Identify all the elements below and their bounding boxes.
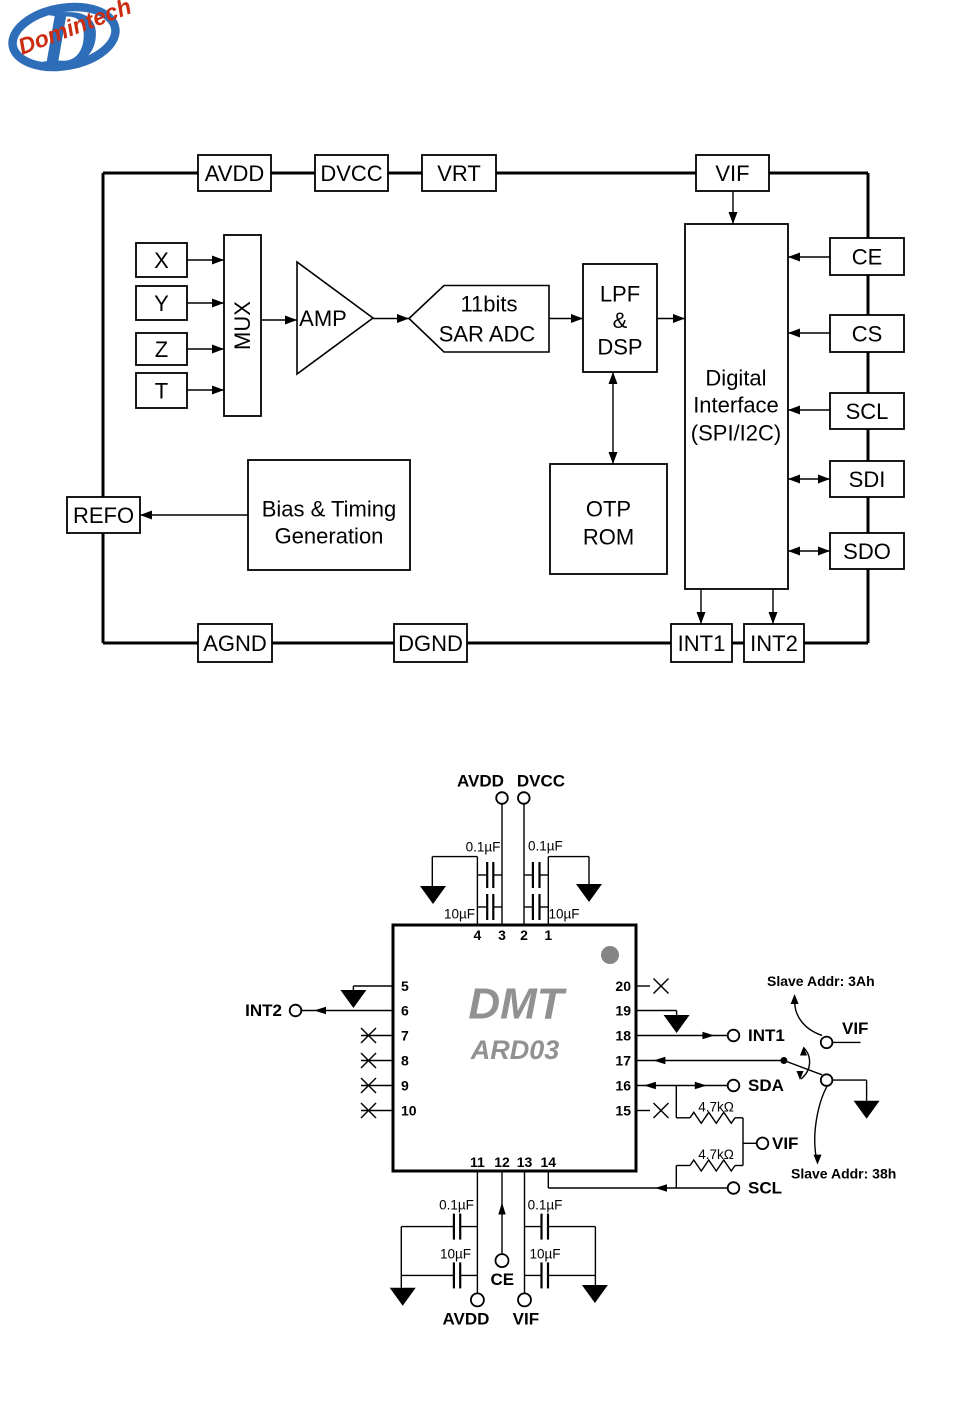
- terminal AVDD (bottom): [471, 1293, 484, 1306]
- svg-text:VIF: VIF: [513, 1310, 539, 1329]
- wire pin 11 to AVDD terminal: [476, 1171, 478, 1293]
- svg-text:8: 8: [401, 1053, 409, 1069]
- svg-text:SDA: SDA: [748, 1076, 784, 1095]
- wire Digital Interface to INT2: [769, 589, 778, 624]
- wire right rail to ground (bottom): [594, 1227, 596, 1285]
- svg-text:3: 3: [498, 927, 506, 943]
- ground (AVDD decoupling): [420, 886, 446, 904]
- svg-text:DVCC: DVCC: [517, 772, 565, 791]
- svg-text:VIF: VIF: [715, 161, 749, 186]
- no-connect pin 10: [361, 1103, 376, 1118]
- svg-text:10µF: 10µF: [549, 907, 580, 922]
- svg-text:11: 11: [470, 1154, 485, 1170]
- svg-text:10: 10: [401, 1103, 417, 1119]
- svg-text:MUX: MUX: [230, 301, 255, 350]
- wire VIF to Digital Interface: [729, 191, 738, 224]
- ground (pin 19): [664, 1015, 690, 1033]
- wire R2 branch to SCL line: [675, 1166, 677, 1189]
- port INT2: [744, 624, 804, 662]
- capacitor C7 0.1µF: [525, 1198, 596, 1240]
- ground (DVCC decoupling): [576, 884, 602, 902]
- capacitor C6 10µF: [401, 1247, 477, 1289]
- block LPF & DSP: [583, 264, 657, 372]
- svg-text:0.1µF: 0.1µF: [528, 1198, 563, 1213]
- switch SW1 contact B (to ground): [821, 1074, 833, 1086]
- svg-text:13: 13: [517, 1154, 533, 1170]
- svg-text:15: 15: [615, 1103, 631, 1119]
- wire pin 6 to INT2 terminal: [302, 1007, 394, 1015]
- port CS: [830, 315, 904, 352]
- wire SDO to Digital Interface (bidirectional): [788, 547, 830, 556]
- svg-text:T: T: [155, 379, 168, 404]
- capacitor C4 10µF: [524, 894, 580, 922]
- port INT1: [671, 624, 732, 662]
- wire pin 8 stub: [361, 1060, 393, 1062]
- svg-text:CE: CE: [852, 245, 883, 270]
- wire SCL to Digital Interface: [788, 406, 830, 415]
- ground (bottom right): [582, 1285, 608, 1303]
- wire SDA branch to R1: [675, 1086, 677, 1118]
- svg-text:AVDD: AVDD: [205, 161, 265, 186]
- resistor R2 4.7kΩ: [676, 1147, 743, 1171]
- wire pin 4 to decoupling rail: [476, 857, 478, 925]
- svg-text:ROM: ROM: [583, 525, 634, 550]
- svg-text:Slave Addr: 38h: Slave Addr: 38h: [791, 1165, 896, 1181]
- port VRT: [422, 155, 496, 191]
- wire pin 13 to VIF terminal: [524, 1171, 526, 1293]
- svg-text:AVDD: AVDD: [443, 1310, 490, 1329]
- wire outer bus bottom: [103, 642, 868, 645]
- switch SW1 contact A (to VIF): [821, 1037, 833, 1049]
- terminal SDA: [728, 1080, 740, 1092]
- capacitor C2 10µF: [444, 894, 502, 922]
- wire switch contact B to ground: [832, 1080, 866, 1101]
- svg-text:Interface: Interface: [693, 393, 779, 418]
- ground (switch contact B): [854, 1101, 880, 1119]
- svg-text:&: &: [613, 308, 628, 333]
- capacitor C8 10µF: [525, 1247, 596, 1289]
- svg-text:INT2: INT2: [245, 1001, 282, 1020]
- wire LPF to Digital Interface: [657, 314, 685, 323]
- wire MUX to AMP: [261, 316, 297, 325]
- ground (pin 5): [340, 990, 366, 1008]
- wire LPF to OTP ROM (bidirectional): [609, 372, 618, 464]
- wire ADC to LPF: [549, 314, 583, 323]
- terminal CE: [496, 1254, 509, 1267]
- block OTP ROM: [550, 464, 667, 574]
- ground (bottom left): [390, 1288, 416, 1306]
- svg-text:18: 18: [615, 1028, 631, 1044]
- capacitor C3 0.1µF: [524, 839, 563, 889]
- svg-text:Y: Y: [154, 291, 169, 316]
- svg-text:Generation: Generation: [275, 524, 384, 549]
- svg-text:Slave Addr: 3Ah: Slave Addr: 3Ah: [767, 973, 875, 989]
- no-connect pin 7: [361, 1028, 376, 1043]
- port DVCC: [315, 155, 388, 191]
- wire outer bus top: [103, 172, 868, 175]
- block Bias & Timing Generation: [248, 460, 410, 570]
- svg-text:2: 2: [520, 927, 528, 943]
- terminal VIF (bottom): [518, 1293, 531, 1306]
- wire AVDD terminal to pin 3: [501, 804, 503, 925]
- svg-text:Digital: Digital: [705, 366, 766, 391]
- svg-text:AMP: AMP: [299, 306, 347, 331]
- port AGND: [198, 624, 272, 662]
- IC U1 DMT ARD03: [393, 925, 636, 1171]
- terminal DVCC: [518, 792, 530, 804]
- no-connect pin 20: [654, 979, 669, 994]
- wire outer bus left: [102, 173, 105, 643]
- wire left rail to ground (bottom): [400, 1227, 402, 1288]
- svg-text:LPF: LPF: [600, 282, 640, 307]
- svg-text:4.7kΩ: 4.7kΩ: [698, 1147, 734, 1162]
- svg-text:CS: CS: [852, 322, 883, 347]
- input Y: [136, 286, 187, 320]
- port DGND: [394, 624, 467, 662]
- svg-text:5: 5: [401, 978, 409, 994]
- svg-text:4: 4: [474, 927, 482, 943]
- wire pin 1 to decoupling rail: [547, 857, 549, 925]
- svg-text:INT2: INT2: [750, 631, 798, 656]
- junction (switch common): [780, 1057, 787, 1064]
- wire Z to MUX: [187, 345, 224, 354]
- no-connect pin 9: [361, 1078, 376, 1093]
- svg-text:ARD03: ARD03: [470, 1035, 560, 1065]
- svg-text:12: 12: [494, 1154, 510, 1170]
- svg-text:17: 17: [615, 1053, 631, 1069]
- svg-text:0.1µF: 0.1µF: [528, 839, 563, 854]
- svg-text:(SPI/I2C): (SPI/I2C): [691, 421, 781, 446]
- terminal VIF (pull-up): [757, 1138, 769, 1150]
- input T: [136, 373, 187, 408]
- wire pin 19 to ground: [636, 1011, 677, 1016]
- wire X to MUX: [187, 256, 224, 265]
- svg-text:1: 1: [544, 927, 552, 943]
- svg-text:11bits: 11bits: [460, 292, 517, 317]
- port SCL: [830, 393, 904, 429]
- svg-text:10µF: 10µF: [444, 907, 475, 922]
- block 11bits SAR ADC: [409, 286, 549, 353]
- svg-text:16: 16: [615, 1078, 631, 1094]
- svg-text:DSP: DSP: [597, 335, 642, 360]
- no-connect pin 8: [361, 1053, 376, 1068]
- svg-text:VRT: VRT: [437, 161, 481, 186]
- wire pin 10 stub: [361, 1110, 393, 1112]
- terminal AVDD: [496, 792, 508, 804]
- svg-text:4.7kΩ: 4.7kΩ: [698, 1100, 734, 1115]
- svg-text:VIF: VIF: [842, 1019, 868, 1038]
- block MUX: [224, 235, 261, 416]
- wire pin 5 to ground: [353, 986, 393, 990]
- wire pin 7 stub: [361, 1035, 393, 1037]
- svg-text:9: 9: [401, 1078, 409, 1094]
- svg-text:SDI: SDI: [849, 467, 886, 492]
- block Digital Interface (SPI/I2C): [685, 224, 788, 589]
- svg-text:INT1: INT1: [748, 1026, 785, 1045]
- annotation arrow to Slave Addr: 3Ah: [791, 994, 822, 1035]
- terminal SCL: [728, 1182, 740, 1194]
- annotation arrow to Slave Addr: 38h: [814, 1086, 828, 1164]
- input Z: [136, 333, 187, 365]
- svg-text:DMT: DMT: [468, 980, 566, 1029]
- wire pin 17 to switch common: [636, 1057, 784, 1065]
- port CE: [830, 238, 904, 275]
- wire pin 18 to INT1 terminal: [636, 1032, 728, 1040]
- wire CS to Digital Interface: [788, 329, 830, 338]
- svg-text:20: 20: [615, 978, 631, 994]
- capacitor C1 0.1µF: [466, 840, 502, 889]
- svg-text:INT1: INT1: [678, 631, 726, 656]
- wire pin 16 to SDA terminal (bidirectional): [636, 1082, 728, 1090]
- svg-text:7: 7: [401, 1028, 409, 1044]
- port VIF: [696, 155, 769, 191]
- svg-text:CE: CE: [490, 1270, 514, 1289]
- input X: [136, 243, 187, 277]
- wire pin 12 to CE terminal: [498, 1171, 506, 1254]
- wire R1/R2 junction bus to VIF terminal: [743, 1118, 757, 1166]
- wire pin 15 stub: [636, 1110, 650, 1112]
- svg-text:DGND: DGND: [398, 631, 463, 656]
- wire pin 9 stub: [361, 1085, 393, 1087]
- port SDI: [830, 461, 904, 497]
- port REFO: [67, 497, 140, 533]
- no-connect pin 15: [654, 1103, 669, 1118]
- svg-text:AGND: AGND: [203, 631, 267, 656]
- terminal INT1: [728, 1030, 740, 1042]
- wire Y to MUX: [187, 299, 224, 308]
- svg-text:19: 19: [615, 1003, 631, 1019]
- wire CE to Digital Interface: [788, 253, 830, 262]
- svg-text:10µF: 10µF: [440, 1247, 471, 1262]
- wire rail to ground (left): [432, 857, 477, 886]
- svg-text:AVDD: AVDD: [457, 772, 504, 791]
- wire pin 20 stub: [636, 985, 650, 987]
- wire Digital Interface to INT1: [697, 589, 706, 624]
- wire pin 14 to SCL terminal: [548, 1171, 727, 1192]
- wire switch contact A to VIF: [832, 1041, 860, 1043]
- wire AMP to ADC: [373, 314, 409, 323]
- svg-text:VIF: VIF: [772, 1134, 798, 1153]
- svg-text:Z: Z: [155, 337, 168, 362]
- svg-text:X: X: [154, 248, 169, 273]
- wire SDI to Digital Interface (bidirectional): [788, 475, 830, 484]
- switch motion arc: [797, 1047, 810, 1081]
- svg-text:0.1µF: 0.1µF: [439, 1198, 474, 1213]
- svg-text:14: 14: [541, 1154, 557, 1170]
- Domintech logo: [8, 0, 135, 83]
- wire T to MUX: [187, 386, 224, 395]
- amplifier AMP: [297, 262, 373, 374]
- port SDO: [830, 533, 904, 569]
- svg-text:REFO: REFO: [73, 503, 134, 528]
- resistor R1 4.7kΩ: [676, 1100, 743, 1124]
- wire DVCC terminal to pin 2: [523, 804, 525, 925]
- svg-text:0.1µF: 0.1µF: [466, 840, 501, 855]
- wire rail to ground (right): [548, 857, 589, 884]
- terminal INT2: [290, 1005, 302, 1017]
- svg-text:6: 6: [401, 1003, 409, 1019]
- svg-text:DVCC: DVCC: [320, 161, 382, 186]
- svg-text:SCL: SCL: [846, 399, 889, 424]
- svg-text:10µF: 10µF: [529, 1247, 560, 1262]
- port AVDD: [198, 155, 271, 191]
- svg-text:SAR ADC: SAR ADC: [439, 322, 536, 347]
- svg-text:Bias & Timing: Bias & Timing: [262, 497, 397, 522]
- svg-text:SDO: SDO: [843, 539, 891, 564]
- switch SW1 blade: [784, 1061, 822, 1075]
- wire outer bus right: [867, 173, 870, 643]
- svg-text:OTP: OTP: [586, 497, 631, 522]
- capacitor C5 0.1µF: [401, 1198, 477, 1240]
- svg-text:SCL: SCL: [748, 1179, 782, 1198]
- wire Bias & Timing to REFO: [140, 511, 248, 520]
